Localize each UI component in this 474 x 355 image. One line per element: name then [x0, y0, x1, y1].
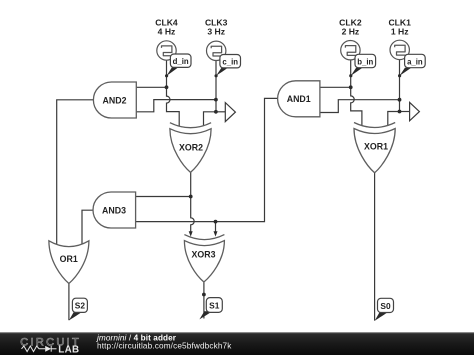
flag S0 [375, 298, 394, 321]
wire stub to triangle left [216, 111, 225, 113]
flag a_in [398, 54, 425, 77]
wire OR1 output to S2 [68, 284, 70, 321]
svg-text:S0: S0 [380, 301, 391, 311]
op gate OR1 [49, 241, 89, 284]
svg-text:LAB: LAB [58, 345, 79, 355]
wire XOR2 output with hop, into XOR3 left input [191, 172, 195, 233]
svg-text:XOR2: XOR2 [179, 143, 203, 153]
op gate XOR1 [354, 123, 395, 173]
op gate XOR3 [184, 235, 224, 282]
op gate AND2 [93, 82, 136, 118]
wire AND2 output to OR1 left input [57, 100, 94, 244]
svg-text:XOR1: XOR1 [364, 142, 388, 152]
node S1 [202, 293, 206, 297]
wire AND2 top input [136, 86, 166, 88]
svg-text:http://circuitlab.com/ce5bfwdb: http://circuitlab.com/ce5bfwdbckh7k [97, 342, 232, 351]
svg-text:S2: S2 [75, 301, 86, 311]
clock source CLK4 [157, 41, 176, 60]
wire AND2 bottom input to c_in [136, 100, 216, 112]
op gate AND1 [278, 81, 320, 117]
wire XOR3 output to S1 [203, 282, 205, 319]
wire d_in vertical with hop over AND2-bottom wire [167, 60, 180, 126]
clock source CLK1 [390, 40, 409, 59]
svg-text:3 Hz: 3 Hz [207, 27, 225, 37]
op gate XOR2 [170, 123, 211, 173]
wire long carry: AND3 bottom input to AND1 output [136, 98, 278, 221]
wire AND1 bottom input to a_in [320, 100, 400, 113]
wire b_in vertical with hop [351, 60, 362, 126]
wire a_in vertical [399, 60, 401, 112]
svg-text:b_in: b_in [357, 57, 373, 66]
logo resistor zigzag + diode [22, 346, 57, 352]
flag d_in [165, 54, 191, 77]
wire XOR1 output to S0 [374, 173, 376, 321]
node carry T to XOR3 [214, 220, 218, 224]
svg-text:AND1: AND1 [287, 94, 311, 104]
clock source CLK3 [207, 41, 226, 60]
wire c_in vertical [215, 60, 217, 112]
arrowhead XOR3 right input [214, 231, 218, 236]
triangle marker right [410, 102, 420, 120]
flag c_in [215, 55, 241, 78]
wire XOR2 right input [204, 112, 216, 126]
svg-text:S1: S1 [209, 301, 220, 311]
svg-text:d_in: d_in [173, 57, 189, 66]
svg-text:2 Hz: 2 Hz [342, 27, 360, 37]
wire XOR3 right input branch [215, 222, 217, 233]
logo diode triangle [45, 346, 51, 352]
op gate AND3 [93, 192, 136, 228]
wire AND1 top input [320, 86, 351, 88]
node b_in/AND1-top [349, 85, 353, 89]
flag b_in [349, 54, 375, 77]
node c_in/AND2-bottom [214, 98, 218, 102]
svg-text:c_in: c_in [222, 58, 238, 67]
node a_in/AND1-bottom [398, 98, 402, 102]
svg-text:AND3: AND3 [102, 205, 126, 215]
flag S1 [199, 298, 222, 320]
triangle marker left [225, 103, 235, 122]
svg-text:1 Hz: 1 Hz [391, 27, 409, 37]
clock source CLK2 [341, 41, 360, 60]
node XOR2-out/AND3-top [189, 195, 193, 199]
wire stub to triangle right [400, 111, 410, 113]
svg-text:OR1: OR1 [60, 254, 78, 264]
wire AND3 top input from XOR2 output [136, 196, 191, 198]
svg-text:XOR3: XOR3 [192, 250, 216, 260]
node c_in T [214, 110, 218, 114]
svg-text:4 Hz: 4 Hz [158, 27, 176, 37]
svg-text:AND2: AND2 [103, 95, 127, 105]
wire XOR1 right input [388, 112, 400, 127]
svg-text:a_in: a_in [407, 57, 423, 66]
node d_in/AND2-top [165, 85, 169, 89]
flag S2 [69, 298, 88, 320]
wire AND3 output to OR1 right input [82, 210, 93, 244]
arrowhead XOR3 left input [189, 231, 193, 236]
node a_in T [398, 110, 402, 114]
